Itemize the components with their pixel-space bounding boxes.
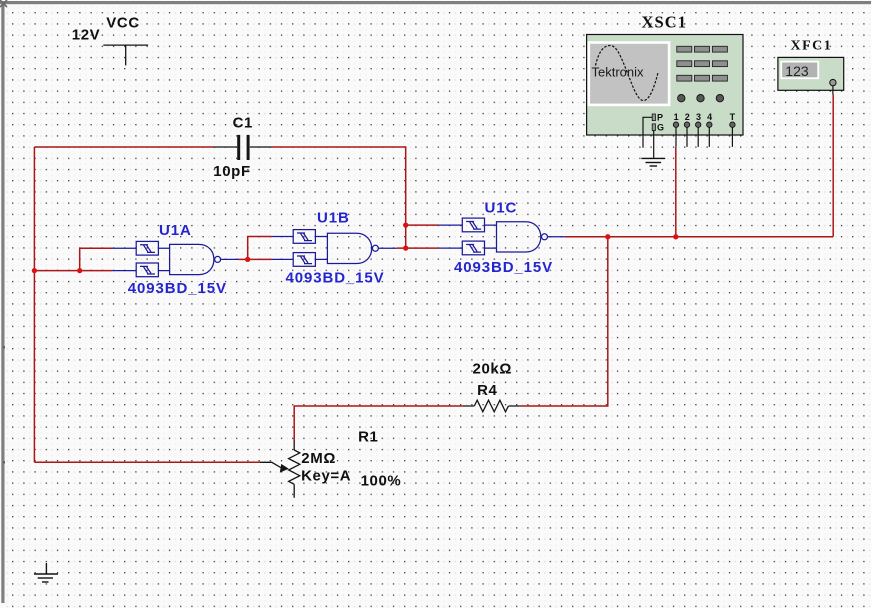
svg-text:100%: 100% [361,473,402,490]
window border top bar [0,1,871,4]
power VCC symbol [103,45,148,65]
svg-text:Key=A: Key=A [301,468,351,485]
junction C1 net / U1C upper input [403,222,408,227]
instrument XFC1 [778,57,844,94]
wiper arrow [280,464,289,473]
junction left rail / U1A lower input [32,268,37,273]
svg-text:C1: C1 [233,114,253,131]
wire down to R4 right [520,237,608,406]
svg-text:4093BD_15V: 4093BD_15V [128,280,227,297]
wire up to XFC1 [832,95,834,237]
svg-text:R1: R1 [358,428,378,445]
svg-text:XFC1: XFC1 [791,39,833,54]
svg-text:R4: R4 [477,382,497,399]
wire C1 right to U1C upper via vertical [272,147,406,225]
left bar ticks [3,346,5,349]
wire U1B out to U1C lower [397,247,439,249]
G stem to ground [653,131,655,159]
svg-text:12V: 12V [72,27,101,44]
svg-text:P: P [657,112,663,122]
svg-text:3: 3 [696,112,701,122]
capacitor C1 [213,135,272,160]
wire left vertical rail [33,147,35,462]
buttons 3x3 [677,46,728,81]
svg-text:U1C: U1C [485,200,518,217]
junction U1A output node [245,257,250,262]
junction output node to R4 [605,234,610,239]
wire net1 top horizontal to C1 [34,146,213,148]
wire U1A lower input [34,270,112,272]
svg-text:10pF: 10pF [213,163,250,180]
instrument XSC1 [587,35,743,159]
svg-text:Tektronix: Tektronix [592,65,645,80]
nand gate U1B (Schmitt) [271,230,396,267]
knobs [678,95,724,102]
wire C1 vert down to U1C lower net [405,225,407,248]
ground symbol [34,563,58,582]
svg-text:VCC: VCC [106,15,139,32]
sine trace [596,46,659,101]
corner mark [0,0,7,7]
nand gate U1A (Schmitt) [112,241,238,276]
svg-text:2: 2 [685,112,690,122]
wire C1 vert to U1C upper input [406,224,439,226]
pin stubs [643,117,732,158]
svg-text:4: 4 [707,112,712,122]
wire up to scope ch1 [675,147,677,237]
svg-text:4093BD_15V: 4093BD_15V [454,259,553,276]
junction U1B output / U1C lower input [403,245,408,250]
wire pot wiper horizontal [34,461,259,463]
svg-text:123: 123 [785,63,809,79]
nand gate U1C (Schmitt) [439,218,565,255]
junction U1A input branch [77,268,82,273]
svg-text:G: G [657,123,664,133]
svg-text:U1B: U1B [317,210,350,227]
svg-text:2MΩ: 2MΩ [301,450,336,467]
wire U1A out up to U1B upper input [248,237,272,260]
ground (scope) [641,158,665,166]
pin circles [673,122,735,127]
svg-text:20kΩ: 20kΩ [473,360,512,377]
potentiometer R1 [260,440,300,498]
P stub wire [643,117,652,147]
wire R4 left to pot top [294,406,463,440]
svg-text:T: T [730,112,736,122]
svg-text:4093BD_15V: 4093BD_15V [286,269,385,286]
P G terminals [652,114,655,121]
wire U1A upper input branch [80,248,113,270]
junction output node to scope ch1 [673,234,678,239]
svg-text:U1A: U1A [159,222,192,239]
svg-text:XSC1: XSC1 [642,13,688,32]
window border left bar [1,1,4,603]
wire U1C output main horizontal [565,236,833,238]
wire U1A output to U1B [239,258,272,260]
svg-text:1: 1 [674,112,679,122]
resistor R4 [463,400,520,412]
